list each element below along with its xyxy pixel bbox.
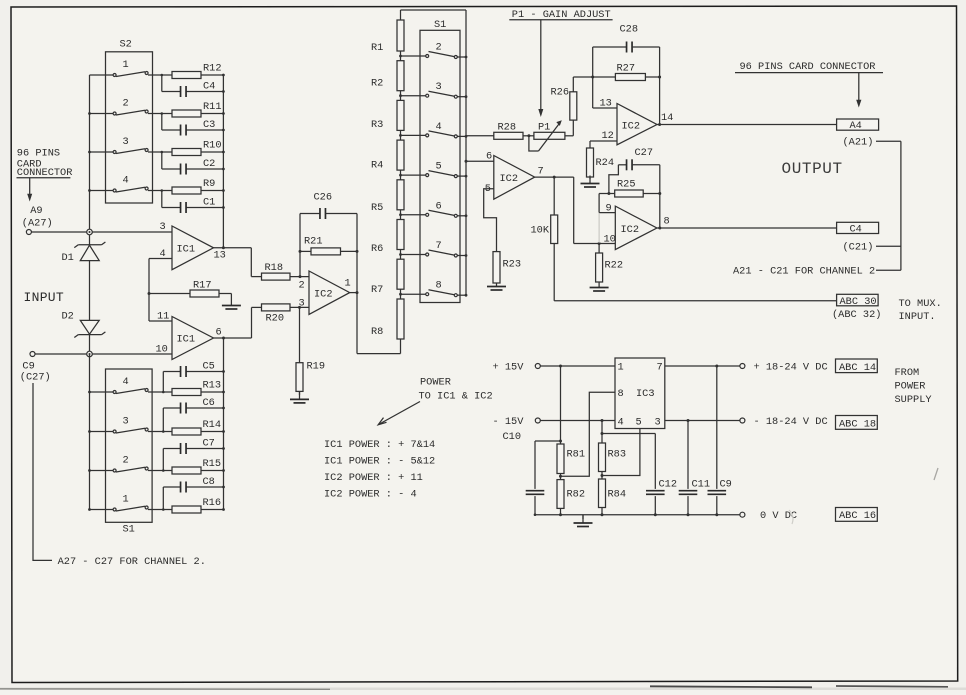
svg-text:IC2: IC2 bbox=[621, 224, 640, 236]
wire bracket bbox=[900, 141, 902, 270]
svg-text:11: 11 bbox=[157, 311, 169, 323]
terminal ABC 30 bbox=[837, 294, 879, 306]
wire bbox=[201, 74, 223, 76]
terminal -18-24 VDC bbox=[740, 418, 745, 423]
svg-text:R9: R9 bbox=[203, 178, 215, 190]
svg-text:(ABC 32): (ABC 32) bbox=[832, 309, 881, 321]
svg-text:TO MUX.: TO MUX. bbox=[899, 298, 942, 310]
svg-text:C12: C12 bbox=[659, 479, 678, 491]
svg-text:ABC 14: ABC 14 bbox=[839, 362, 876, 374]
svg-text:96 PINS CARD CONNECTOR: 96 PINS CARD CONNECTOR bbox=[740, 61, 876, 73]
switch S1-7 bbox=[401, 254, 426, 256]
svg-text:R82: R82 bbox=[567, 489, 586, 501]
wire bbox=[148, 151, 172, 153]
svg-text:IC1 POWER : + 7&14: IC1 POWER : + 7&14 bbox=[324, 439, 435, 451]
svg-text:C28: C28 bbox=[620, 24, 639, 36]
wire pin9 bbox=[598, 194, 600, 213]
resistor R24 bbox=[587, 148, 594, 177]
resistor R22 bbox=[598, 242, 601, 245]
capacitor C12 bbox=[646, 490, 665, 492]
terminal ABC 18 bbox=[836, 416, 878, 430]
resistor R1 bbox=[397, 20, 404, 51]
switch box S2 bbox=[106, 52, 153, 203]
svg-text:C4: C4 bbox=[203, 81, 215, 93]
wire IC2 output pin7 bbox=[535, 176, 574, 178]
svg-text:1: 1 bbox=[123, 494, 129, 506]
switch S1-3 bbox=[90, 431, 114, 433]
wire bbox=[201, 151, 223, 153]
resistor R8 bbox=[397, 299, 404, 339]
wire pin7 row bbox=[665, 365, 740, 367]
svg-text:C6: C6 bbox=[203, 397, 215, 409]
wire bank left bus bbox=[89, 354, 91, 510]
wire input row A9 bbox=[31, 231, 172, 233]
wire to mux row bbox=[553, 244, 555, 301]
wire bbox=[400, 289, 402, 299]
wire bbox=[565, 135, 573, 137]
resistor R13 bbox=[172, 389, 201, 396]
svg-text:R26: R26 bbox=[551, 87, 570, 99]
svg-text:C11: C11 bbox=[692, 479, 711, 491]
svg-text:R2: R2 bbox=[371, 78, 383, 90]
svg-text:R20: R20 bbox=[266, 313, 285, 325]
node input junction 2 bbox=[87, 351, 93, 357]
svg-text:(A21): (A21) bbox=[843, 137, 874, 149]
svg-text:2: 2 bbox=[123, 98, 129, 110]
svg-text:FROM: FROM bbox=[895, 367, 920, 379]
resistor R10 bbox=[172, 149, 201, 156]
wire bbox=[400, 250, 402, 260]
op-amp IC2 (out C) bbox=[615, 206, 657, 250]
svg-text:POWER: POWER bbox=[895, 380, 926, 392]
svg-text:P1: P1 bbox=[538, 122, 550, 134]
wire feedback left bbox=[299, 214, 301, 277]
resistor R20 bbox=[262, 304, 291, 311]
svg-text:C9: C9 bbox=[720, 479, 732, 491]
svg-text:ABC 16: ABC 16 bbox=[839, 510, 876, 522]
capacitor C7 bbox=[180, 443, 182, 454]
node input junction bbox=[87, 229, 93, 235]
wire pin4/pin11 tie bbox=[149, 258, 172, 260]
svg-text:6: 6 bbox=[486, 151, 492, 163]
svg-text:10: 10 bbox=[156, 344, 168, 356]
terminal ABC 16 bbox=[836, 508, 878, 522]
svg-text:3: 3 bbox=[160, 221, 166, 233]
switch S2-3 bbox=[90, 151, 114, 153]
svg-text:R21: R21 bbox=[304, 236, 323, 248]
wire output A4 row bbox=[657, 124, 837, 126]
wire S2 left bus bbox=[89, 75, 91, 232]
wire IC1 bottom output bbox=[214, 337, 252, 339]
svg-text:TO IC1 & IC2: TO IC1 & IC2 bbox=[419, 391, 493, 403]
ground bbox=[496, 283, 498, 286]
switch S1-5 bbox=[401, 174, 426, 176]
svg-text:5: 5 bbox=[436, 161, 442, 173]
svg-text:8: 8 bbox=[664, 216, 670, 228]
svg-text:IC2: IC2 bbox=[500, 173, 519, 185]
switch S1-6 bbox=[401, 214, 426, 216]
diode D2 (zener) bbox=[80, 320, 99, 334]
terminal +18-24 VDC bbox=[740, 364, 745, 369]
potentiometer P1 bbox=[534, 132, 565, 139]
wire bbox=[161, 75, 163, 92]
wire bbox=[89, 335, 91, 354]
switch box S1 (input bank) bbox=[106, 369, 153, 522]
resistor 10K bbox=[553, 177, 555, 215]
svg-text:S2: S2 bbox=[120, 39, 132, 51]
svg-text:D2: D2 bbox=[62, 311, 74, 323]
svg-text:IC1 POWER : - 5&12: IC1 POWER : - 5&12 bbox=[324, 456, 435, 468]
svg-text:4: 4 bbox=[436, 121, 442, 133]
wire bbox=[400, 130, 402, 140]
capacitor C27 bbox=[618, 164, 626, 166]
wire 0VDC row bbox=[535, 514, 740, 516]
resistor R17 bbox=[149, 293, 190, 295]
svg-text:R14: R14 bbox=[203, 419, 222, 431]
wire feedback right bbox=[356, 214, 358, 354]
resistor R11 bbox=[172, 110, 201, 117]
switch S2-2 bbox=[90, 113, 114, 115]
resistor R15 bbox=[172, 467, 201, 474]
svg-text:R19: R19 bbox=[307, 361, 326, 373]
svg-text:R12: R12 bbox=[203, 63, 222, 75]
resistor R6 bbox=[397, 220, 404, 250]
wire bbox=[161, 152, 163, 169]
svg-text:A21 - C21 FOR CHANNEL 2: A21 - C21 FOR CHANNEL 2 bbox=[733, 266, 875, 278]
wire bank output bus bbox=[223, 338, 225, 510]
svg-text:+ 18-24 V DC: + 18-24 V DC bbox=[754, 362, 828, 374]
wire ladder bottom bbox=[400, 339, 402, 354]
wire feedback verticals bbox=[592, 47, 594, 108]
svg-text:4: 4 bbox=[123, 175, 129, 187]
svg-text:- 18-24 V DC: - 18-24 V DC bbox=[754, 416, 828, 428]
svg-text:R84: R84 bbox=[608, 489, 627, 501]
wire bbox=[162, 372, 164, 393]
svg-text:R28: R28 bbox=[498, 122, 517, 134]
wire ladder top bbox=[401, 9, 467, 11]
resistor R27 bbox=[573, 76, 615, 78]
switch S2-4 bbox=[90, 190, 114, 192]
resistor R26 bbox=[572, 120, 574, 136]
svg-text:1: 1 bbox=[345, 278, 351, 290]
svg-text:IC2: IC2 bbox=[314, 289, 333, 301]
wire R20 branch bbox=[251, 307, 253, 338]
resistor R28 bbox=[494, 132, 523, 139]
switch S1-4 bbox=[401, 134, 426, 136]
ground bbox=[589, 177, 591, 179]
svg-text:C7: C7 bbox=[203, 438, 215, 450]
svg-text:IC1: IC1 bbox=[177, 334, 196, 346]
wire bbox=[148, 431, 172, 433]
wire +15V row bbox=[540, 365, 615, 367]
wire bbox=[148, 190, 172, 192]
svg-text:10: 10 bbox=[604, 234, 616, 246]
ground bbox=[598, 282, 600, 287]
wire bbox=[201, 113, 223, 115]
svg-text:IC2 POWER : + 11: IC2 POWER : + 11 bbox=[324, 472, 423, 484]
svg-text:12: 12 bbox=[602, 130, 614, 142]
svg-text:A27 - C27 FOR CHANNEL 2.: A27 - C27 FOR CHANNEL 2. bbox=[58, 556, 206, 568]
wire R18 branch bbox=[250, 248, 252, 277]
wire pin13 bbox=[593, 107, 617, 109]
op-amp IC2 (buffer) bbox=[494, 156, 535, 200]
wire pin8 path bbox=[561, 392, 616, 476]
terminal A4 bbox=[837, 119, 879, 130]
wire bbox=[162, 408, 164, 432]
svg-text:R23: R23 bbox=[503, 259, 522, 271]
wire bbox=[400, 210, 402, 220]
svg-text:S1: S1 bbox=[123, 524, 135, 536]
svg-text:ABC 30: ABC 30 bbox=[840, 296, 877, 308]
wire bbox=[161, 114, 163, 131]
resistor R9 bbox=[172, 187, 201, 194]
ground bbox=[299, 391, 301, 395]
svg-text:CONNECTOR: CONNECTOR bbox=[17, 167, 73, 179]
svg-text:- 15V: - 15V bbox=[493, 416, 525, 428]
svg-text:R16: R16 bbox=[203, 497, 222, 509]
wire bbox=[201, 509, 224, 511]
switch S2-1 bbox=[90, 74, 114, 76]
svg-text:R7: R7 bbox=[371, 284, 383, 296]
op-amp IC1 (top) bbox=[172, 226, 214, 270]
svg-text:ABC 18: ABC 18 bbox=[839, 418, 876, 430]
svg-text:C1: C1 bbox=[203, 197, 215, 209]
wire bbox=[400, 91, 402, 101]
wire bbox=[201, 190, 223, 192]
svg-text:6: 6 bbox=[216, 327, 222, 339]
svg-text:9: 9 bbox=[606, 203, 612, 215]
svg-text:C3: C3 bbox=[203, 119, 215, 131]
capacitor C9 bbox=[716, 366, 718, 489]
svg-text:A9: A9 bbox=[30, 205, 42, 217]
svg-text:+ 15V: + 15V bbox=[493, 361, 525, 373]
wire pin12 bbox=[590, 140, 617, 142]
wire S1 bus bbox=[465, 10, 467, 295]
svg-text:13: 13 bbox=[600, 98, 612, 110]
svg-text:R22: R22 bbox=[605, 260, 624, 272]
svg-text:IC3: IC3 bbox=[636, 388, 655, 400]
svg-text:INPUT.: INPUT. bbox=[899, 311, 936, 323]
resistor R16 bbox=[172, 506, 201, 513]
wire R83 top bbox=[601, 421, 603, 444]
resistor R14 bbox=[172, 428, 201, 435]
svg-text:7: 7 bbox=[538, 166, 544, 178]
wire pin5 path bbox=[484, 189, 497, 252]
svg-text:3: 3 bbox=[436, 81, 442, 93]
svg-text:R83: R83 bbox=[608, 449, 627, 461]
capacitor C2 bbox=[180, 164, 182, 175]
switch S1-4 bbox=[90, 391, 114, 393]
svg-text:4: 4 bbox=[123, 376, 129, 388]
svg-text:0 V DC: 0 V DC bbox=[760, 510, 797, 522]
wire bbox=[201, 391, 224, 393]
svg-text:POWER: POWER bbox=[420, 377, 451, 389]
wire bbox=[400, 170, 402, 180]
svg-text:C8: C8 bbox=[203, 476, 215, 488]
wire bbox=[162, 449, 164, 471]
svg-text:3: 3 bbox=[123, 136, 129, 148]
capacitor C8 bbox=[180, 482, 182, 493]
svg-text:2: 2 bbox=[123, 455, 129, 467]
svg-text:5: 5 bbox=[636, 416, 642, 428]
svg-text:S1: S1 bbox=[434, 19, 446, 31]
note A27-C27 leader bbox=[33, 383, 52, 560]
resistor R18 bbox=[262, 273, 291, 280]
resistor R25 bbox=[599, 193, 615, 195]
wire bbox=[89, 261, 91, 321]
svg-text:6: 6 bbox=[436, 200, 442, 212]
svg-text:IC2 POWER : - 4: IC2 POWER : - 4 bbox=[324, 489, 417, 501]
resistor R19 bbox=[299, 307, 301, 362]
ground bbox=[230, 294, 232, 298]
wire input row C9 bbox=[35, 353, 172, 355]
svg-text:7: 7 bbox=[657, 362, 663, 374]
svg-text:INPUT: INPUT bbox=[24, 290, 65, 305]
svg-text:(C21): (C21) bbox=[843, 242, 874, 254]
diode D1 (zener) bbox=[89, 235, 91, 245]
wire bbox=[400, 51, 402, 61]
svg-text:10K: 10K bbox=[531, 225, 550, 237]
wire bbox=[148, 391, 172, 393]
svg-text:2: 2 bbox=[436, 42, 442, 54]
svg-text:R8: R8 bbox=[371, 326, 383, 338]
wire bbox=[148, 509, 172, 511]
wire feedback right bbox=[659, 165, 661, 228]
svg-text:R27: R27 bbox=[617, 63, 636, 75]
svg-text:R17: R17 bbox=[193, 280, 212, 292]
op-amp IC2 (mid) bbox=[309, 271, 350, 314]
svg-text:8: 8 bbox=[618, 388, 624, 400]
wire S1 tap out bbox=[466, 135, 494, 137]
wire C12 branch bbox=[602, 433, 655, 435]
op-amp IC2 (out A) bbox=[617, 104, 657, 145]
svg-text:4: 4 bbox=[618, 416, 624, 428]
svg-text:1: 1 bbox=[618, 362, 624, 374]
svg-text:SUPPLY: SUPPLY bbox=[895, 394, 932, 406]
wire S2 output bus bbox=[222, 75, 224, 248]
svg-text:A4: A4 bbox=[850, 120, 862, 132]
resistor R81 bbox=[560, 366, 562, 444]
resistor R21 bbox=[300, 250, 311, 252]
switch S1-2 bbox=[401, 55, 426, 57]
svg-text:13: 13 bbox=[214, 250, 226, 262]
switch S1-3 bbox=[401, 95, 426, 97]
resistor R3 bbox=[397, 100, 404, 130]
svg-text:14: 14 bbox=[661, 112, 673, 124]
resistor R7 bbox=[397, 259, 404, 289]
svg-text:2: 2 bbox=[299, 280, 305, 292]
capacitor C11 bbox=[687, 421, 689, 489]
svg-text:IC2: IC2 bbox=[622, 121, 641, 133]
svg-text:3: 3 bbox=[123, 416, 129, 428]
svg-text:C27: C27 bbox=[635, 147, 654, 159]
wire bbox=[201, 470, 224, 472]
svg-text:R3: R3 bbox=[371, 119, 383, 131]
capacitor C6 bbox=[180, 403, 182, 414]
svg-text:R13: R13 bbox=[203, 380, 222, 392]
switch S1-2 bbox=[90, 470, 114, 472]
wire pin7 to pin10 bbox=[573, 177, 575, 243]
svg-text:C26: C26 bbox=[314, 192, 333, 204]
svg-text:R1: R1 bbox=[371, 42, 383, 54]
svg-text:R15: R15 bbox=[203, 458, 222, 470]
wire bbox=[201, 431, 224, 433]
capacitor C26 bbox=[300, 213, 320, 215]
switch S1-1 bbox=[90, 509, 114, 511]
wire bbox=[148, 113, 172, 115]
svg-text:C5: C5 bbox=[203, 361, 215, 373]
svg-text:R11: R11 bbox=[203, 101, 222, 113]
wire output C4 row bbox=[657, 227, 837, 229]
wire C27 left step bbox=[609, 165, 619, 194]
svg-text:R5: R5 bbox=[371, 202, 383, 214]
ground bbox=[582, 515, 584, 519]
wire bbox=[148, 74, 172, 76]
switch S1-8 bbox=[401, 293, 426, 295]
svg-text:C4: C4 bbox=[850, 223, 862, 235]
wire -15V row bbox=[540, 420, 615, 422]
capacitor C3 bbox=[180, 125, 182, 136]
wire IC1 top output bbox=[214, 247, 252, 249]
switch box S1 bbox=[420, 30, 460, 302]
wire bbox=[162, 487, 164, 510]
svg-text:OUTPUT: OUTPUT bbox=[782, 160, 843, 178]
wire bbox=[148, 470, 172, 472]
resistor R83 bbox=[599, 443, 606, 472]
capacitor C5 bbox=[180, 366, 182, 377]
svg-text:(A27): (A27) bbox=[22, 217, 53, 229]
svg-text:IC1: IC1 bbox=[177, 244, 196, 256]
terminal ABC 14 bbox=[836, 359, 878, 373]
svg-text:R81: R81 bbox=[567, 449, 586, 461]
svg-text:(C27): (C27) bbox=[20, 372, 51, 384]
capacitor C28 bbox=[593, 46, 627, 48]
resistor R84 bbox=[601, 472, 603, 480]
resistor R23 bbox=[493, 252, 500, 283]
svg-text:C10: C10 bbox=[503, 431, 522, 443]
capacitor C10 bbox=[535, 440, 561, 442]
svg-text:7: 7 bbox=[436, 240, 442, 252]
svg-text:1: 1 bbox=[123, 59, 129, 71]
svg-text:R6: R6 bbox=[371, 243, 383, 255]
svg-text:R18: R18 bbox=[265, 262, 284, 274]
op-amp IC1 (bottom) bbox=[172, 317, 214, 360]
wire pin3 row bbox=[665, 420, 740, 422]
resistor R2 bbox=[397, 61, 404, 91]
wire S1 bus to pin6 bbox=[466, 160, 494, 162]
terminal C4 bbox=[837, 222, 879, 233]
resistor R82 bbox=[560, 474, 562, 480]
IC3 bbox=[615, 358, 665, 429]
capacitor C4 bbox=[180, 86, 182, 97]
svg-text:D1: D1 bbox=[62, 252, 74, 264]
wire to ladder bottom bbox=[357, 353, 401, 355]
svg-text:8: 8 bbox=[436, 280, 442, 292]
resistor R12 bbox=[172, 72, 201, 79]
scan streak (decorative) bbox=[598, 213, 600, 243]
terminal 0 VDC bbox=[740, 512, 745, 517]
resistor R4 bbox=[397, 140, 404, 170]
wire pin5 path bbox=[602, 429, 640, 476]
capacitor C1 bbox=[180, 202, 182, 213]
svg-text:R4: R4 bbox=[371, 160, 383, 172]
svg-text:3: 3 bbox=[655, 416, 661, 428]
svg-text:R10: R10 bbox=[203, 140, 222, 152]
svg-text:C2: C2 bbox=[203, 158, 215, 170]
svg-text:R25: R25 bbox=[617, 179, 636, 191]
resistor R5 bbox=[397, 180, 404, 210]
wire bbox=[161, 191, 163, 208]
